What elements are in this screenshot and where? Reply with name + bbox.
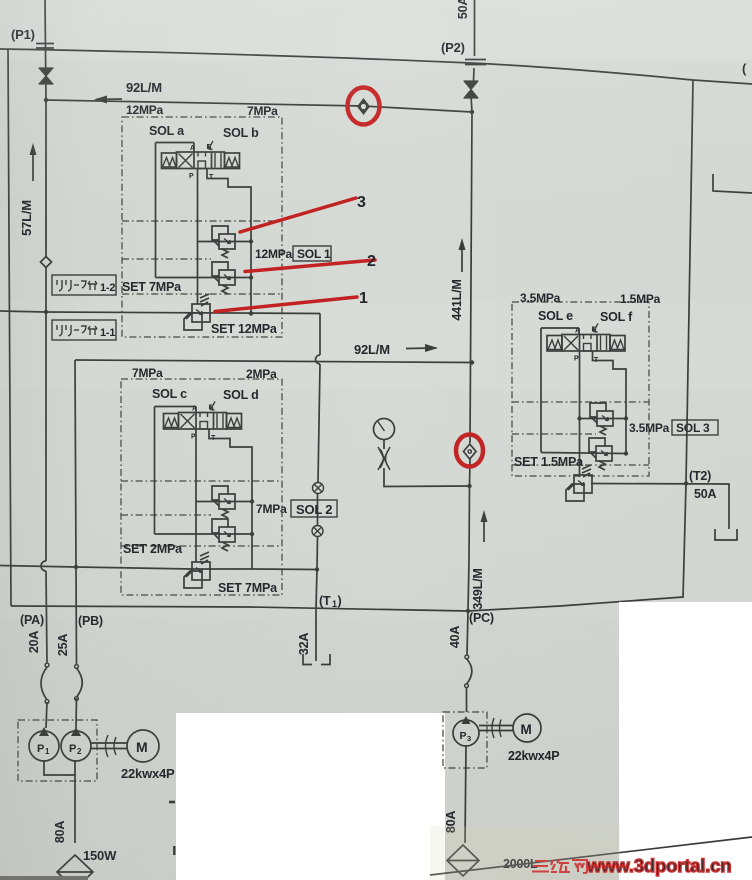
shadow bottom left corner: [0, 876, 88, 880]
strainer S2: [447, 845, 479, 876]
wire: relief a line: [580, 418, 627, 420]
relief valve RV2-b: [212, 519, 235, 551]
junction dot P1 relief line: [44, 310, 48, 314]
wire: relief a line: [198, 241, 252, 243]
plug symbol circle-x lower: [312, 526, 323, 537]
relief valve RV1-b: [212, 262, 235, 294]
wire: valve1 P line down: [197, 169, 199, 305]
svg-text:M: M: [521, 722, 532, 737]
port arrow B: [208, 141, 213, 150]
dashed enclosure group2: [121, 379, 282, 595]
tank bracket right top: [713, 174, 752, 193]
wire: valve1 feed line: [156, 143, 195, 153]
hose: PA flexible hose: [45, 663, 49, 667]
wire: top border line: [0, 49, 752, 84]
port arrow B: [593, 324, 598, 333]
annotation red circle 1: [348, 88, 380, 125]
wire: valve3 feed line: [541, 328, 579, 335]
wire: hop arc on PA line: [74, 565, 78, 569]
label relief 1-1 boxed (katakana): [52, 320, 116, 340]
wire: relief b line: [156, 277, 252, 279]
dashed enclosure group1: [122, 117, 282, 337]
port arrow B: [210, 402, 215, 411]
wire: pump suction join: [44, 761, 75, 843]
relief valve RV2-a: [212, 486, 235, 518]
arrow right 92L/M mid: [406, 347, 436, 350]
wire: gauge line to PC: [384, 468, 470, 487]
svg-text:P: P: [460, 730, 467, 742]
pump P1: [29, 731, 59, 761]
valve U2 SOL c/d: [164, 413, 242, 430]
relief valve RV1-main: [184, 294, 210, 330]
wire: valve1 T stepped line: [207, 169, 251, 314]
wire: valve1 left vertical: [155, 143, 157, 278]
dashed enclosure group3: [512, 302, 649, 476]
wire: relief output tank line y=567: [0, 566, 317, 570]
arrow up 441L/M: [461, 243, 463, 272]
wire: valve3 T stepped line: [593, 351, 627, 454]
junction dot tank line: [466, 609, 470, 613]
junction dot P1/92L: [44, 98, 48, 102]
motor M2: [513, 714, 541, 742]
valve (shutoff) P1: [39, 68, 53, 84]
arrow up 349L/M: [483, 515, 485, 542]
node: filled diamond junction (red circled): [357, 98, 370, 115]
wire: long bottom return line: [11, 597, 683, 611]
wire: valve3 P line down: [579, 351, 581, 477]
remnant marks at white edge: [169, 801, 175, 804]
junction dot 92L/441: [470, 360, 474, 364]
svg-text:www.3dportal.cn: www.3dportal.cn: [586, 855, 731, 876]
wire: P2/PC vertical: [467, 0, 475, 712]
junction dot 92L/P2: [470, 110, 474, 114]
wire: valve2 T stepped line: [209, 429, 252, 569]
relief valve RV2-main: [184, 552, 210, 588]
valve U1 SOL a/b: [162, 152, 240, 169]
valve U3 SOL e/f: [547, 335, 625, 352]
dashed pump enclosure: [18, 720, 97, 781]
wire: tank surface line: [430, 837, 752, 875]
relief valve RV3-main: [566, 465, 592, 501]
connector double bars P2: [465, 60, 486, 65]
relief valve RV3-a: [590, 403, 613, 435]
annotation line 1: [215, 297, 357, 312]
dashed pump enclosure P3: [443, 712, 487, 768]
junction dot gauge line: [467, 484, 471, 488]
svg-text:3: 3: [467, 734, 471, 743]
annotation line 2: [245, 260, 375, 272]
svg-text:22kwx4P: 22kwx4P: [508, 749, 559, 763]
shaft P3-M: [479, 726, 513, 731]
connector double bars P1: [36, 44, 54, 49]
wire: relief b line: [155, 533, 253, 535]
annotation line 3: [240, 198, 356, 232]
pump P3: [453, 720, 479, 746]
wire: right vertical line: [683, 80, 693, 598]
tank symbol T1: [303, 654, 330, 665]
wire: valve2 feed line: [155, 407, 197, 413]
wire: T2 line: [591, 484, 729, 530]
plug symbol circle-x upper: [313, 483, 324, 494]
svg-text:1: 1: [359, 290, 368, 307]
relief valve RV1-a: [212, 226, 235, 258]
wire: left border vertical: [8, 49, 11, 606]
wire: T1 vertical: [316, 314, 320, 662]
annotation red circle 2: [456, 435, 483, 467]
wire: hop arc on T1 vertical: [316, 355, 321, 364]
gauge PG1: [374, 419, 395, 440]
throttle valve: [383, 440, 385, 450]
hose: PC flexible hose: [465, 655, 469, 659]
label SOL 2 boxed: [291, 500, 337, 517]
wire: valve3 left vertical: [540, 328, 542, 453]
wire: relief b line: [541, 453, 626, 454]
wire: P3 suction: [465, 746, 466, 843]
node: diamond junction on P1 line: [41, 257, 52, 268]
wire: PB vertical and 92L/M line to 441: [75, 360, 472, 363]
node: diamond junction (red circled 2): [464, 444, 477, 459]
label relief 1-2 boxed (katakana): [52, 275, 116, 295]
junction dot T1/tank line: [315, 567, 319, 571]
relief valve RV3-b: [589, 438, 612, 470]
wire: relief a line: [196, 501, 252, 503]
label SOL 3 boxed: [672, 420, 718, 435]
svg-text:2: 2: [367, 253, 376, 270]
wire: valve2 P line down: [195, 429, 197, 562]
wire: hop arc over tank line: [41, 561, 46, 571]
arrow left 92L/M: [96, 98, 122, 101]
wire: relief output line y=313: [0, 311, 320, 314]
label SOL 1 boxed: [293, 246, 331, 261]
motor M1: [127, 730, 159, 762]
arrow up 57L/M: [32, 148, 34, 181]
tank symbol T2: [715, 529, 737, 540]
wire: valve2 left vertical: [154, 407, 156, 535]
pump P2: [61, 731, 91, 761]
wire: 92L/M supply line: [46, 100, 472, 112]
wire: P1 vertical line: [45, 0, 47, 728]
shaft P2-M: [91, 743, 127, 749]
valve (shutoff) P2: [464, 81, 478, 98]
svg-text:3: 3: [357, 194, 366, 211]
hose: PB flexible hose: [75, 665, 79, 669]
strainer S1: [57, 855, 93, 880]
